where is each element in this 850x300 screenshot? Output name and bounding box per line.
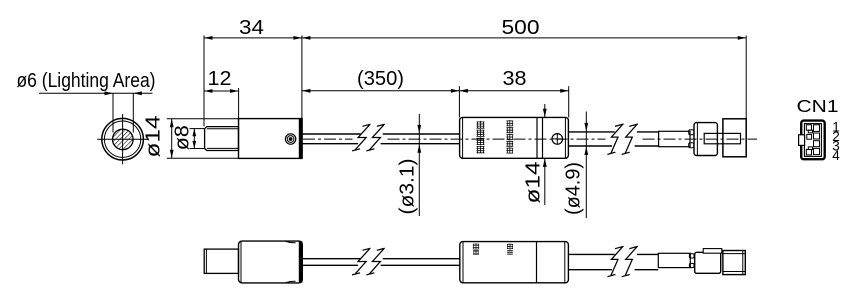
svg-text:12: 12 — [208, 68, 232, 90]
svg-text:CN1: CN1 — [797, 96, 839, 116]
front view crosshair — [97, 114, 148, 164]
connector rear block top view — [723, 119, 746, 157]
bottom connector latch lever — [703, 249, 722, 254]
CN1 connector front view outer shell — [801, 121, 825, 160]
dimension (350) — [302, 90, 460, 92]
front view outer circle (o14 body) — [102, 118, 144, 160]
dimension 500 — [302, 37, 746, 39]
bottom body black end cap — [299, 241, 303, 282]
bottom body — [239, 241, 303, 283]
bottom snout — [204, 249, 238, 273]
(o3.1) dimension — [418, 114, 420, 216]
snout (o8 tip) — [205, 127, 239, 151]
body screw detail — [285, 134, 295, 144]
CN1 pin numbers — [832, 119, 840, 163]
mid cylinder (label holder) — [460, 117, 569, 158]
o14 cylinder dimension — [544, 104, 546, 205]
dimension 38 — [459, 90, 568, 92]
CN1 latch tab — [799, 135, 805, 146]
svg-text:ø14: ø14 — [523, 162, 545, 204]
body black end cap — [299, 119, 303, 159]
CN1 pin slots left column — [806, 125, 812, 155]
extension line connector right end — [745, 36, 747, 119]
bottom cylinder label edge marks — [473, 243, 513, 255]
o6 dimension line with outside arrows — [39, 92, 153, 94]
dimension 34 — [204, 37, 302, 39]
dimension 12 — [204, 90, 239, 92]
extension line cylinder right — [568, 86, 570, 117]
cylinder screw symbol — [552, 134, 563, 145]
svg-text:(ø3.1): (ø3.1) — [397, 159, 419, 215]
cable o3.1 top view — [302, 134, 459, 144]
svg-text:ø6 (Lighting Area): ø6 (Lighting Area) — [17, 70, 156, 92]
bottom connector rear block — [723, 251, 745, 275]
bottom cylinder — [460, 242, 569, 283]
svg-text:(ø4.9): (ø4.9) — [563, 162, 585, 215]
bottom connector sleeve — [658, 253, 690, 267]
svg-text:38: 38 — [503, 68, 527, 90]
svg-text:ø14: ø14 — [143, 116, 165, 158]
connector sleeve top view — [659, 131, 690, 146]
extension line cylinder left — [458, 86, 460, 117]
o8 snout dimension — [190, 129, 206, 149]
bottom connector housing — [695, 252, 721, 273]
cable o4.9 top view — [569, 132, 659, 146]
extension line left of snout tip — [203, 36, 205, 127]
CN1 inner shell — [804, 124, 821, 157]
CN1 pin slots right column — [814, 125, 820, 155]
svg-text:4: 4 — [832, 148, 840, 163]
o6 dimension extension lines — [113, 93, 133, 132]
cable break 2 — [607, 124, 638, 154]
centerline main axis — [303, 138, 757, 140]
svg-text:(350): (350) — [357, 68, 404, 90]
label text column 2 (kanji) — [506, 120, 513, 153]
front view lighting area hatched circle — [113, 129, 134, 150]
main body (o14) — [239, 119, 303, 159]
extension line body right end — [301, 36, 303, 119]
bottom cable o4.9 — [568, 254, 658, 269]
connector mating tab top view — [704, 133, 740, 143]
bottom connector latch bumps — [689, 254, 694, 268]
bottom cable break 2 — [607, 246, 638, 276]
svg-text:ø8: ø8 — [172, 125, 194, 150]
bottom cable break 1 — [352, 248, 385, 275]
label text column 1 (kanji) — [477, 121, 485, 153]
bottom cable o3.1 — [302, 259, 459, 266]
svg-text:34: 34 — [239, 17, 264, 39]
svg-text:500: 500 — [502, 17, 540, 39]
connector housing top view — [694, 123, 717, 156]
o14 front body dimension — [167, 119, 239, 159]
connector latch bumps top view — [689, 130, 694, 148]
(o4.9) dimension — [585, 112, 587, 219]
cable break 1 — [352, 124, 385, 151]
extension line snout step — [238, 88, 240, 126]
